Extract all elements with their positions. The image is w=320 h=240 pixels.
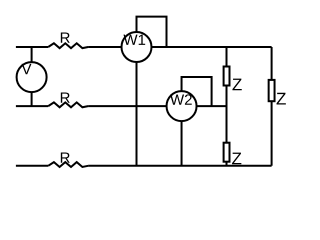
impedance Z1 xyxy=(224,67,242,91)
wattmeter W2 xyxy=(167,91,197,121)
wire phase-1 from W1 to right corner xyxy=(152,46,272,48)
wire phase-2 from W2 to load node xyxy=(197,105,227,107)
wire phase-1 left segment xyxy=(16,46,48,48)
wire phase-1 right corner down to Z3 xyxy=(271,47,273,80)
wire phase-1 node down to Z1 xyxy=(226,47,228,67)
resistor R3 xyxy=(48,152,88,166)
wire W2 voltage-coil loop xyxy=(182,77,212,106)
voltmeter V xyxy=(17,62,47,92)
impedance Z3 xyxy=(269,80,286,105)
wire W1 voltage-coil loop xyxy=(137,17,167,47)
wire phase-2 between R2 and W2 xyxy=(88,105,166,107)
wire Z2 down to phase-3 xyxy=(226,162,228,166)
wire W1 bottom lead down to phase-3 xyxy=(136,62,138,166)
wire W2 bottom lead down to phase-3 xyxy=(181,121,183,166)
resistor R1 xyxy=(48,32,88,48)
wire phase-1 between R1 and W1 xyxy=(88,46,121,48)
wire Z1 to phase-2 node and on down to Z2 xyxy=(226,86,228,143)
impedance Z2 xyxy=(224,143,242,165)
wire phase-3 right segment xyxy=(88,165,272,167)
wire phase-3 left segment xyxy=(16,165,48,167)
wire voltmeter top lead xyxy=(31,47,33,62)
wire voltmeter bottom lead xyxy=(31,92,33,106)
resistor R2 xyxy=(48,92,88,107)
wattmeter W1 xyxy=(122,32,152,62)
wire phase-2 left segment xyxy=(16,105,48,107)
wire Z3 down to phase-3 xyxy=(271,101,273,166)
